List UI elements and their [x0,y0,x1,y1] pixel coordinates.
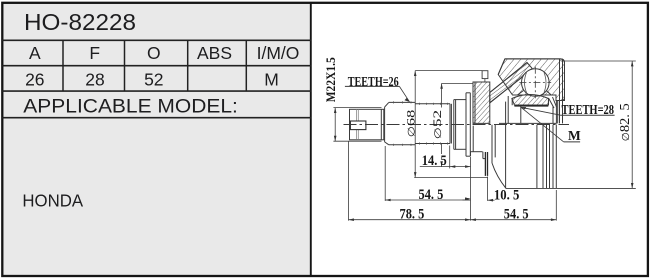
dim 52 vertical [441,83,443,107]
arrow 68 top [414,71,417,76]
ext line 10.5 right [487,177,489,201]
table column line 3 [187,40,189,91]
band upper edge [490,63,527,93]
block steep left edge [498,59,505,75]
ext line 54.5 left [384,146,386,201]
rim chamfer [563,99,565,102]
spline 68 top edge [389,101,415,103]
arrow 68 bottom [414,172,417,177]
block top edge with corner [505,59,565,63]
svg-text:TEETH=26: TEETH=26 [348,75,399,90]
flange bottom left vertical [472,126,474,152]
dim line 78.5 [349,219,471,221]
housing flange hatched (section top) [473,82,490,123]
dim line 14.5 / 52 bottom ref [420,166,471,168]
svg-text:F: F [89,43,100,63]
stub thread root line a [356,109,358,140]
stub thread root line b [357,109,359,140]
boot clamp lug [482,71,488,79]
TEETH=28 underline [561,114,615,116]
boot seat ring bottom edge [466,155,470,157]
TEETH=28 leader [521,107,561,115]
table horizontal line row3 [2,90,311,92]
arrow 14.5 right [465,165,470,168]
dim 68 vertical [414,71,416,178]
table horizontal line row2 [2,65,311,67]
dim 68 bottom ref line [414,177,487,179]
boot seat ring left face [465,93,467,156]
bell mouth inner vertical [505,102,507,189]
arrow M22 top [334,108,337,113]
svg-text:M: M [264,69,279,89]
arrowheads [334,61,634,221]
dark flange ring line 1 [484,152,486,176]
mouth notch line 1 [549,98,555,108]
spline 52 bottom edge [415,143,450,145]
arrow 54.5-2 right [551,218,556,221]
housing bottom edge [506,187,636,189]
svg-text:HO-82228: HO-82228 [24,9,136,35]
dim 52 top jog [442,82,473,84]
svg-text:O: O [147,43,161,63]
inner race bold bottom line [514,105,548,107]
groove step vertical [482,152,484,159]
svg-text:54. 5: 54. 5 [504,207,529,223]
dia82.5 dim vertical [631,61,633,188]
chamfer top [385,102,389,107]
thread crest line top [333,107,381,109]
boot groove valley bottom [471,151,483,153]
mid ring bottom edge [454,148,466,150]
ext line 78.5 left [348,142,350,221]
end face bottom half [555,125,557,189]
ext line boot groove [470,157,472,221]
dim 10.5 left tail [463,199,471,201]
arrow 52 bottom [440,161,443,166]
spline 68 bottom edge [389,144,415,146]
table column line 2 [124,40,126,91]
arrow M22 bottom [334,136,337,141]
svg-text:∅82. 5: ∅82. 5 [618,103,633,141]
race right edge [548,99,550,106]
groove step edge [483,158,486,160]
groove vertical 5 [552,125,554,189]
svg-text:M: M [568,128,581,143]
groove vertical 1 [536,125,538,189]
boot seat ring top edge [466,92,470,94]
M underline [564,141,580,143]
dim 10.5 right tail [488,199,495,201]
TEETH=26 leader [399,86,409,101]
table horizontal line row1 [2,39,311,41]
dim 68 top jog [415,70,482,72]
arrow 78.5 left [349,218,354,221]
rim inner line [559,59,561,123]
dia82.5 ext top [561,60,636,62]
ball inner arc left [525,73,527,93]
arrow teeth28/M leader [521,107,527,109]
arrow 14.5 left [450,165,455,168]
dark flange ring line 2 [487,152,489,176]
boot seat ring right face [469,93,471,156]
arrow 78.5 right [465,218,470,221]
groove vertical 3 [546,125,548,189]
ball cross horizontal [519,82,551,84]
housing wall diagonal band [490,63,533,103]
ball cross vertical [534,67,536,98]
ext line 54.5-2 right [555,190,557,221]
svg-text:TEETH=28: TEETH=28 [562,103,615,118]
step ring face b [455,100,457,150]
bell curve [492,163,506,188]
flange left inner line [474,82,476,123]
arrow 54.5-1 right [465,198,470,201]
step ring face [453,100,455,150]
table horizontal line row4 [2,117,311,119]
ext line spline end [449,146,451,169]
stub slot [350,121,366,130]
inner race hatched dome [512,95,549,106]
dim line 54.5-2 [471,219,557,221]
svg-text:M22X1.5: M22X1.5 [323,57,338,102]
svg-text:APPLICABLE MODEL:: APPLICABLE MODEL: [23,95,238,117]
svg-text:78. 5: 78. 5 [400,207,425,223]
dim line 54.5-1 / 10.5 [385,199,470,201]
arrow 10.5 left [465,198,470,201]
svg-text:28: 28 [85,69,104,89]
table grey background [3,3,312,275]
rim outer edge [564,63,566,101]
arrow 82.5 bottom [631,183,634,188]
cage arc right [546,91,551,96]
arrow 82.5 top [631,61,634,66]
step face between stub and spline [384,107,386,142]
cavity bottom line [499,122,557,124]
groove vertical 2 [542,125,544,189]
dim jog vertical (68) [484,79,486,82]
arrow teeth26 leader [405,98,410,102]
svg-text:54. 5: 54. 5 [419,187,444,203]
cavity rail left outer [507,96,509,123]
cavity rail right [552,107,554,124]
ball inner arc right [544,73,546,93]
cage arc left [517,91,524,96]
groove vertical 4 [549,125,551,189]
svg-text:I/M/O: I/M/O [257,43,300,63]
svg-text:52: 52 [144,69,163,89]
svg-text:HONDA: HONDA [22,190,83,210]
band lower edge [490,69,533,103]
svg-text:ABS: ABS [197,43,232,63]
arrow 54.5-2 left [471,218,476,221]
spline tick marks [394,101,448,146]
cavity rail mid [520,107,522,124]
svg-text:14. 5: 14. 5 [422,153,447,169]
race left edge [511,99,513,106]
centerline [344,124,570,126]
arrow 54.5-1 left [385,199,390,202]
M leader [521,107,564,142]
rim mid line [562,60,564,124]
TEETH=26 underline [345,85,400,87]
chamfer bottom [385,142,389,145]
valley connect vertical [470,152,472,157]
svg-text:A: A [29,43,41,63]
mouth notch line 2 [553,97,557,107]
M22 dim vertical [334,108,336,142]
table column line 4 [245,40,247,91]
svg-text:26: 26 [25,69,44,89]
arrow 10.5 right [488,199,493,202]
spline right end [449,104,451,144]
arrow 52 top [440,83,443,88]
table divider vertical [310,3,312,276]
threaded stub body [350,109,384,140]
undercut line [450,104,452,144]
table column line 1 [62,40,64,91]
ball [522,69,550,97]
bell curve vertical [491,125,493,163]
thread crest line bottom [333,140,381,142]
spline 52 top edge [415,103,450,105]
housing top block hatched [498,59,564,101]
stub right inner line [380,109,382,140]
svg-text:10. 5: 10. 5 [494,188,519,204]
mid ring top edge [454,99,466,101]
